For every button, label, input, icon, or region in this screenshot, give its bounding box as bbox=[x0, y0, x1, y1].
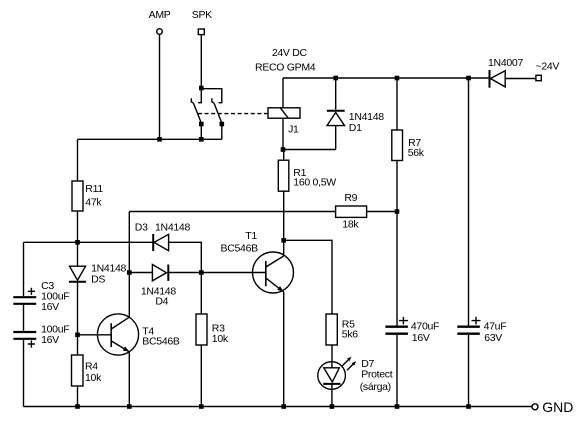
node relay/R1/D1 junction bbox=[281, 147, 286, 152]
terminal ~24V bbox=[536, 61, 560, 81]
capacitor 47uF bbox=[457, 78, 506, 344]
node D4/R3/T1-base junction bbox=[199, 270, 204, 275]
wire D4 cathode to T1 base bbox=[168, 272, 265, 274]
wire 24V top bus bbox=[283, 77, 490, 79]
svg-text:1N4007: 1N4007 bbox=[488, 57, 523, 69]
wire R5 to LED bbox=[331, 345, 333, 362]
node left-contact-bus junction bbox=[199, 137, 204, 142]
resistor R11 bbox=[72, 181, 103, 211]
svg-text:D4: D4 bbox=[155, 296, 168, 308]
svg-text:56k: 56k bbox=[408, 147, 425, 159]
wire 47uF to ground bus bbox=[468, 335, 470, 407]
svg-text:T1: T1 bbox=[245, 230, 257, 242]
resistor R7 bbox=[392, 78, 425, 161]
svg-text:D1: D1 bbox=[349, 122, 362, 134]
wire R3 to ground bus bbox=[200, 345, 202, 407]
svg-text:470uF: 470uF bbox=[411, 321, 439, 333]
node D4 left junction bbox=[127, 270, 132, 275]
node T1 emitter ground bbox=[281, 404, 286, 409]
capacitor C3 (lower 100uF) bbox=[13, 324, 69, 348]
wire ground bus bbox=[24, 406, 532, 408]
svg-text:Protect: Protect bbox=[361, 369, 393, 381]
svg-text:BC546B: BC546B bbox=[142, 336, 180, 348]
svg-text:AMP: AMP bbox=[149, 9, 171, 21]
svg-text:18k: 18k bbox=[342, 219, 359, 231]
wire D4 anode lead bbox=[129, 272, 152, 274]
node 47uF ground bbox=[466, 404, 471, 409]
node R3 ground bbox=[199, 404, 204, 409]
svg-text:10k: 10k bbox=[85, 372, 102, 384]
resistor R3 bbox=[196, 273, 229, 346]
wire SPK to node bbox=[200, 35, 202, 88]
wire right contact to bus bbox=[221, 124, 223, 139]
diode DS 1N4148 bbox=[69, 242, 127, 285]
diode D3 1N4148 bbox=[135, 222, 191, 252]
svg-text:J1: J1 bbox=[288, 124, 299, 136]
wire column D3/D4 to T4 collector bbox=[128, 212, 130, 273]
resistor R4 bbox=[72, 335, 103, 386]
node T4 emitter ground bbox=[127, 404, 132, 409]
wire T1 emitter to ground bus bbox=[283, 292, 285, 407]
wire T4 base bbox=[78, 334, 112, 336]
resistor R1 bbox=[278, 160, 336, 191]
wire relay top to bus bbox=[282, 78, 284, 108]
node R9 right junction bbox=[395, 209, 400, 214]
wire AMP to bus bbox=[159, 34, 161, 139]
node C47uF top junction bbox=[466, 76, 471, 81]
wire T1 collector up to R1 bbox=[283, 191, 285, 256]
wire horizontal net C3/R11/D3 bbox=[24, 241, 154, 243]
svg-text:47uF: 47uF bbox=[484, 321, 507, 333]
wire T1 collector branch to R5 bbox=[284, 240, 332, 314]
wire R7 bottom to R9 junction bbox=[396, 161, 398, 212]
wire T4 collector bbox=[128, 273, 130, 318]
svg-text:16V: 16V bbox=[412, 332, 430, 344]
terminal AMP bbox=[149, 9, 171, 34]
node 470uF ground bbox=[395, 404, 400, 409]
wire D1 anode lead bbox=[335, 126, 337, 150]
svg-text:5k6: 5k6 bbox=[342, 329, 358, 341]
svg-text:SPK: SPK bbox=[192, 9, 212, 21]
svg-text:10k: 10k bbox=[212, 333, 229, 345]
transistor T4 BC546B bbox=[97, 314, 180, 355]
svg-text:R4: R4 bbox=[85, 361, 98, 373]
wire 470uF to ground bus bbox=[396, 335, 398, 407]
svg-text:24V DC: 24V DC bbox=[272, 47, 308, 59]
wire bus AMP/SPK bbox=[78, 138, 222, 140]
wire horizontal net R9 left bbox=[129, 211, 335, 213]
svg-text:63V: 63V bbox=[484, 332, 502, 344]
svg-text:47k: 47k bbox=[85, 197, 102, 209]
relay contact S1 (left) bbox=[191, 98, 201, 123]
wire left contact to bus bbox=[200, 124, 202, 139]
LED D7 bbox=[318, 357, 393, 407]
resistor R5 bbox=[326, 314, 358, 345]
node right contact bbox=[220, 122, 225, 127]
svg-text:16V: 16V bbox=[41, 334, 59, 346]
svg-text:RECO GPM4: RECO GPM4 bbox=[255, 62, 316, 74]
svg-text:~24V: ~24V bbox=[536, 61, 560, 73]
transistor T1 BC546B bbox=[221, 230, 294, 293]
wire 1N4007 to terminal bbox=[505, 78, 536, 80]
svg-text:GND: GND bbox=[542, 399, 573, 415]
wire junction to D1 bottom bbox=[283, 149, 336, 151]
resistor R9 bbox=[336, 192, 397, 231]
wire bus corner down to R11 bbox=[77, 139, 79, 181]
diode D1 1N4148 bbox=[327, 78, 384, 134]
diode D4 1N4148 bbox=[141, 265, 176, 308]
wire R11 bottom bbox=[77, 211, 79, 242]
svg-text:R11: R11 bbox=[85, 183, 103, 195]
svg-text:BC546B: BC546B bbox=[221, 243, 259, 255]
svg-text:(sárga): (sárga) bbox=[360, 381, 391, 393]
wire DS to T4 base junction bbox=[77, 282, 79, 335]
node D1 top junction bbox=[333, 76, 338, 81]
terminal SPK bbox=[192, 9, 212, 35]
wire R4 to ground bus bbox=[77, 386, 79, 407]
node R11/DS junction bbox=[75, 240, 80, 245]
svg-text:R9: R9 bbox=[344, 192, 357, 204]
capacitor C3 (upper 100uF) bbox=[13, 280, 69, 313]
capacitor 470uF bbox=[385, 212, 439, 345]
node AMP-bus junction bbox=[157, 137, 162, 142]
svg-text:DS: DS bbox=[91, 274, 105, 286]
svg-text:D3: D3 bbox=[135, 222, 148, 234]
wire mechanical link (dashed) to relay J1 bbox=[198, 113, 268, 115]
wire left contact top lead bbox=[198, 88, 201, 103]
wire D3 anode to corner bbox=[169, 242, 202, 272]
relay contact S2 (right) bbox=[212, 98, 222, 123]
svg-text:160 0,5W: 160 0,5W bbox=[293, 177, 336, 189]
node left contact bbox=[199, 122, 204, 127]
wire right contact top lead bbox=[201, 89, 222, 103]
wire left column top bbox=[23, 242, 25, 296]
relay coil J1 bbox=[268, 108, 300, 150]
wire T4 emitter to ground bus bbox=[128, 352, 130, 407]
svg-text:1N4148: 1N4148 bbox=[155, 222, 190, 234]
node LED ground bbox=[330, 404, 335, 409]
node R7 top junction bbox=[395, 76, 400, 81]
wire left column bottom bbox=[23, 340, 25, 407]
node SPK junction bbox=[199, 86, 204, 91]
node T1 collector junction bbox=[281, 238, 286, 243]
diode 1N4007 bbox=[488, 57, 523, 88]
node R4 ground bbox=[75, 404, 80, 409]
node T4 base junction bbox=[75, 333, 80, 338]
svg-text:16V: 16V bbox=[41, 301, 59, 313]
terminal GND bbox=[532, 399, 573, 415]
wire R1 top to relay junction bbox=[283, 150, 285, 161]
wire between C3 caps bbox=[23, 305, 25, 331]
